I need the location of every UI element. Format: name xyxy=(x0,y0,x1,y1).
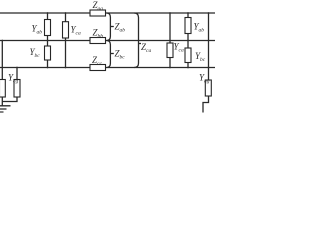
resistor Yca right xyxy=(167,43,173,58)
resistor bottom left second xyxy=(14,80,20,98)
resistor Yca left xyxy=(63,22,69,38)
svg-text:Zbc: Zbc xyxy=(115,49,126,61)
wire left Yca column a-c xyxy=(65,13,67,68)
svg-text:Yab: Yab xyxy=(194,22,205,34)
mutual impedance Zca branch xyxy=(134,13,138,68)
wire left ground column from c xyxy=(2,68,17,102)
ground xyxy=(0,106,11,112)
wire phase c line xyxy=(0,67,215,69)
svg-text:Zca: Zca xyxy=(141,42,151,54)
svg-text:Ybc: Ybc xyxy=(195,51,206,63)
wire right Ya ground column xyxy=(203,13,209,113)
wire left ground column from b xyxy=(1,41,3,106)
junction dots xyxy=(1,12,209,68)
wire right Yca column a-c xyxy=(169,13,171,68)
resistor Ybc left xyxy=(45,46,51,60)
svg-text:Yca: Yca xyxy=(174,42,184,54)
resistor Ybc right xyxy=(185,48,191,63)
wire phase b line xyxy=(0,40,215,42)
resistor Yab right xyxy=(185,18,191,34)
wire right Yab/Ybc column xyxy=(187,13,189,68)
tick Zab xyxy=(110,26,113,28)
wire phase a line xyxy=(0,12,215,14)
wire left Ybc column b-c xyxy=(47,41,49,68)
mutual impedance Zbc branch xyxy=(107,41,111,68)
svg-text:Ybc: Ybc xyxy=(30,47,41,59)
wire left Yab column a-b xyxy=(47,13,49,41)
tick Zbc xyxy=(110,53,113,55)
svg-text:Yab: Yab xyxy=(32,24,43,36)
resistor Zbb xyxy=(90,38,106,44)
svg-text:Zab: Zab xyxy=(115,22,126,34)
resistor Zcc xyxy=(90,65,106,71)
resistor Zaa xyxy=(90,10,106,16)
resistor Yag bottom right xyxy=(205,80,211,96)
tick Zca xyxy=(139,43,142,45)
mutual impedance Zab branch xyxy=(107,13,111,41)
resistor Ycg bottom left xyxy=(0,80,5,98)
svg-text:Yca: Yca xyxy=(71,25,81,37)
resistor Yab left xyxy=(45,20,51,36)
